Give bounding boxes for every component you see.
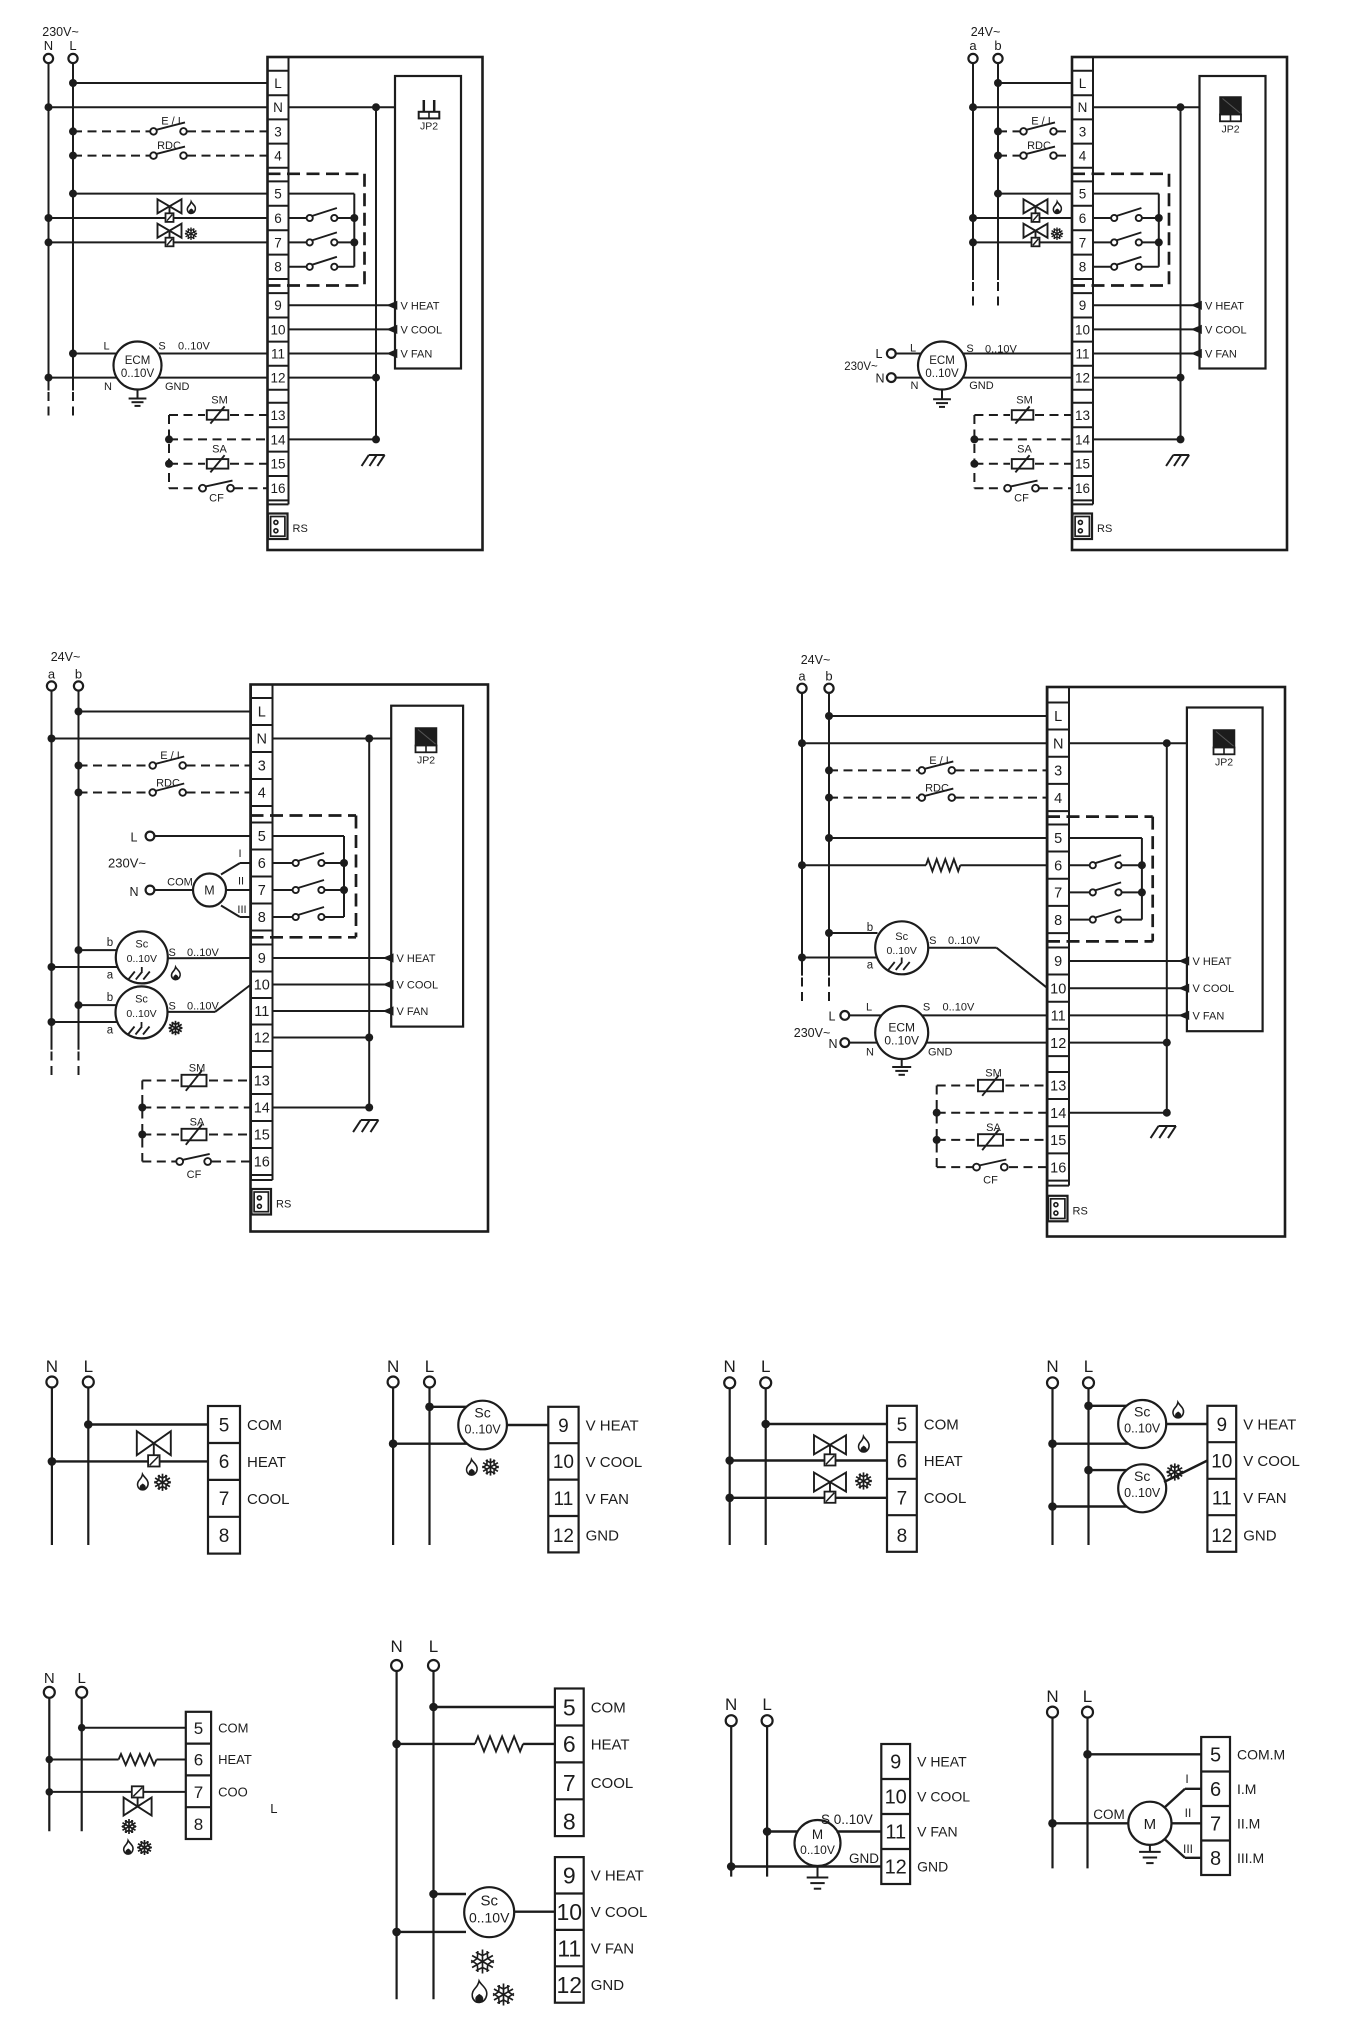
svg-text:3: 3 — [274, 124, 282, 139]
svg-text:S: S — [966, 343, 973, 355]
svg-text:III: III — [1183, 1842, 1193, 1856]
svg-text:S 0..10V: S 0..10V — [821, 1812, 873, 1827]
svg-text:GND: GND — [586, 1528, 620, 1545]
svg-text:5: 5 — [563, 1694, 576, 1720]
svg-text:SA: SA — [1017, 443, 1032, 455]
svg-text:9: 9 — [563, 1863, 576, 1889]
svg-text:Sc: Sc — [474, 1405, 490, 1421]
svg-text:4: 4 — [274, 149, 282, 164]
svg-text:SM: SM — [985, 1068, 1002, 1080]
svg-text:0..10V: 0..10V — [465, 1423, 502, 1437]
svg-text:9: 9 — [1079, 298, 1087, 313]
svg-text:L: L — [425, 1357, 434, 1376]
svg-text:4: 4 — [1079, 149, 1087, 164]
svg-text:0..10V: 0..10V — [469, 1910, 510, 1926]
svg-text:11: 11 — [1051, 1009, 1066, 1025]
svg-text:10: 10 — [254, 978, 270, 994]
svg-text:N: N — [1046, 1357, 1058, 1376]
svg-text:JP2: JP2 — [1221, 124, 1239, 136]
svg-text:V COOL: V COOL — [1205, 324, 1247, 336]
svg-text:E / I: E / I — [160, 750, 180, 762]
svg-text:5: 5 — [219, 1415, 230, 1436]
svg-text:RDC: RDC — [157, 140, 181, 152]
svg-text:11: 11 — [271, 346, 285, 361]
svg-text:10: 10 — [1211, 1451, 1232, 1472]
svg-text:HEAT: HEAT — [218, 1752, 252, 1767]
svg-text:M: M — [204, 884, 214, 898]
svg-text:COM: COM — [247, 1417, 282, 1434]
svg-text:GND: GND — [928, 1047, 953, 1059]
svg-text:7: 7 — [219, 1489, 230, 1510]
svg-text:COOL: COOL — [924, 1490, 967, 1507]
svg-text:N: N — [257, 732, 267, 748]
svg-text:S: S — [158, 341, 165, 353]
svg-text:L: L — [270, 1801, 277, 1816]
svg-text:L: L — [829, 1010, 836, 1024]
svg-text:3: 3 — [258, 759, 266, 775]
svg-text:11: 11 — [885, 1822, 906, 1844]
svg-text:SM: SM — [1016, 395, 1033, 407]
svg-text:10: 10 — [1050, 981, 1066, 997]
svg-text:0..10V: 0..10V — [884, 1034, 919, 1048]
svg-text:N: N — [104, 381, 112, 393]
svg-text:ECM: ECM — [929, 355, 955, 367]
svg-text:L: L — [103, 341, 109, 353]
svg-text:13: 13 — [1050, 1079, 1066, 1095]
svg-text:5: 5 — [274, 187, 282, 202]
svg-text:V HEAT: V HEAT — [591, 1868, 644, 1885]
svg-text:24V~: 24V~ — [51, 650, 81, 664]
svg-text:8: 8 — [563, 1809, 576, 1835]
svg-text:13: 13 — [1075, 408, 1090, 423]
svg-text:I: I — [1185, 1772, 1188, 1786]
svg-text:V COOL: V COOL — [1193, 983, 1235, 995]
svg-text:RS: RS — [293, 523, 308, 535]
svg-text:M: M — [1144, 1816, 1157, 1833]
svg-text:N: N — [1053, 736, 1063, 752]
svg-text:GND: GND — [969, 380, 994, 392]
svg-text:M: M — [812, 1827, 823, 1842]
svg-text:11: 11 — [254, 1004, 269, 1020]
svg-text:III.M: III.M — [1237, 1850, 1264, 1866]
svg-text:14: 14 — [270, 432, 286, 447]
svg-text:11: 11 — [1075, 346, 1089, 361]
svg-text:5: 5 — [1079, 187, 1087, 202]
svg-text:b: b — [825, 669, 832, 684]
svg-text:12: 12 — [557, 1972, 583, 1998]
svg-text:ECM: ECM — [888, 1021, 915, 1035]
svg-text:N: N — [390, 1637, 402, 1656]
svg-text:V COOL: V COOL — [401, 324, 443, 336]
svg-text:4: 4 — [1054, 791, 1062, 807]
svg-text:CF: CF — [209, 493, 224, 505]
svg-text:II: II — [1185, 1806, 1192, 1820]
svg-text:II.M: II.M — [1237, 1815, 1260, 1831]
svg-text:12: 12 — [885, 1857, 907, 1879]
svg-text:S: S — [929, 935, 936, 947]
svg-text:JP2: JP2 — [1215, 757, 1233, 769]
svg-text:COOL: COOL — [247, 1491, 290, 1508]
svg-text:24V~: 24V~ — [971, 25, 1001, 39]
svg-text:6: 6 — [1054, 858, 1062, 874]
svg-text:7: 7 — [897, 1489, 908, 1510]
svg-text:12: 12 — [1211, 1526, 1232, 1547]
svg-text:COM: COM — [924, 1416, 959, 1433]
svg-text:a: a — [969, 38, 977, 53]
svg-text:0..10V: 0..10V — [126, 1008, 156, 1020]
svg-text:GND: GND — [1243, 1528, 1277, 1545]
svg-text:I: I — [238, 848, 241, 860]
svg-text:7: 7 — [274, 235, 282, 250]
svg-text:GND: GND — [849, 1851, 879, 1866]
svg-text:14: 14 — [254, 1101, 270, 1117]
svg-text:15: 15 — [1050, 1133, 1066, 1149]
svg-text:0..10V: 0..10V — [178, 341, 210, 353]
svg-text:8: 8 — [274, 260, 282, 275]
svg-text:9: 9 — [274, 298, 282, 313]
svg-text:16: 16 — [1075, 481, 1090, 496]
svg-text:V HEAT: V HEAT — [1193, 956, 1232, 968]
svg-text:III: III — [237, 904, 246, 916]
svg-text:GND: GND — [917, 1859, 948, 1875]
svg-text:L: L — [1079, 76, 1087, 91]
svg-text:0..10V: 0..10V — [187, 1001, 219, 1013]
svg-text:b: b — [75, 667, 82, 682]
svg-text:V FAN: V FAN — [1205, 349, 1237, 361]
svg-text:COM: COM — [591, 1699, 626, 1716]
svg-text:b: b — [994, 38, 1001, 53]
svg-text:5: 5 — [1210, 1745, 1221, 1767]
svg-text:0..10V: 0..10V — [121, 368, 155, 380]
svg-text:Sc: Sc — [895, 931, 908, 943]
svg-text:V FAN: V FAN — [591, 1941, 634, 1958]
svg-text:E / I: E / I — [1031, 116, 1051, 128]
svg-text:10: 10 — [885, 1787, 907, 1809]
svg-text:RDC: RDC — [156, 778, 180, 790]
svg-text:COM: COM — [1093, 1807, 1125, 1822]
svg-text:8: 8 — [258, 910, 266, 926]
svg-text:V FAN: V FAN — [401, 349, 433, 361]
svg-text:Sc: Sc — [1134, 1468, 1150, 1484]
svg-text:L: L — [1054, 709, 1062, 725]
svg-text:11: 11 — [557, 1935, 581, 1961]
svg-text:L: L — [761, 1357, 770, 1376]
svg-text:L: L — [1083, 1687, 1092, 1706]
svg-text:0..10V: 0..10V — [187, 947, 219, 959]
svg-text:7: 7 — [1210, 1814, 1221, 1836]
svg-text:6: 6 — [274, 211, 282, 226]
svg-text:COM: COM — [218, 1720, 248, 1735]
svg-text:230V~: 230V~ — [108, 856, 146, 871]
svg-text:L: L — [866, 1002, 872, 1014]
svg-text:V COOL: V COOL — [1243, 1453, 1300, 1470]
svg-text:7: 7 — [194, 1783, 203, 1802]
svg-text:RDC: RDC — [1027, 140, 1051, 152]
svg-text:SA: SA — [212, 443, 227, 455]
svg-text:SA: SA — [190, 1117, 205, 1129]
svg-text:0..10V: 0..10V — [800, 1843, 835, 1857]
svg-text:GND: GND — [591, 1977, 625, 1994]
svg-text:COM: COM — [167, 877, 193, 889]
svg-text:V HEAT: V HEAT — [401, 300, 440, 312]
svg-text:S: S — [169, 1001, 176, 1013]
svg-text:V COOL: V COOL — [586, 1454, 643, 1471]
svg-text:24V~: 24V~ — [801, 653, 831, 667]
svg-text:V HEAT: V HEAT — [397, 953, 436, 965]
svg-text:8: 8 — [897, 1526, 908, 1547]
svg-text:12: 12 — [1075, 371, 1090, 386]
svg-text:5: 5 — [258, 829, 266, 845]
svg-text:V HEAT: V HEAT — [917, 1754, 967, 1770]
svg-text:6: 6 — [219, 1452, 230, 1473]
svg-text:10: 10 — [557, 1899, 583, 1925]
svg-text:6: 6 — [194, 1751, 203, 1770]
svg-text:Sc: Sc — [1134, 1404, 1150, 1420]
svg-text:N: N — [273, 100, 283, 115]
svg-text:a: a — [867, 960, 874, 972]
svg-text:15: 15 — [254, 1128, 270, 1144]
svg-text:12: 12 — [254, 1031, 270, 1047]
svg-text:N: N — [725, 1695, 737, 1714]
svg-text:11: 11 — [554, 1489, 574, 1510]
svg-text:GND: GND — [165, 381, 190, 393]
svg-text:3: 3 — [1079, 124, 1087, 139]
svg-text:0..10V: 0..10V — [1124, 1486, 1161, 1500]
svg-text:10: 10 — [1075, 322, 1090, 337]
svg-text:V HEAT: V HEAT — [1205, 300, 1244, 312]
svg-text:0..10V: 0..10V — [1124, 1422, 1161, 1436]
svg-text:L: L — [131, 831, 138, 845]
svg-text:11: 11 — [1212, 1489, 1232, 1510]
svg-text:6: 6 — [1079, 211, 1087, 226]
svg-text:7: 7 — [1054, 886, 1062, 902]
svg-text:V COOL: V COOL — [917, 1789, 970, 1805]
svg-text:5: 5 — [194, 1719, 203, 1738]
svg-text:L: L — [910, 343, 916, 355]
svg-text:E / I: E / I — [929, 755, 949, 767]
svg-text:12: 12 — [1050, 1036, 1066, 1052]
svg-text:6: 6 — [258, 856, 266, 872]
svg-text:CF: CF — [187, 1169, 202, 1181]
svg-text:L: L — [429, 1637, 438, 1656]
svg-text:COO: COO — [218, 1785, 248, 1800]
svg-text:N: N — [44, 38, 53, 53]
svg-text:V FAN: V FAN — [586, 1491, 629, 1508]
svg-text:N: N — [724, 1357, 736, 1376]
svg-text:N: N — [911, 380, 919, 392]
svg-text:a: a — [48, 667, 56, 682]
svg-text:230V~: 230V~ — [42, 25, 79, 39]
svg-text:5: 5 — [1054, 831, 1062, 847]
svg-text:12: 12 — [270, 371, 285, 386]
svg-text:a: a — [107, 970, 114, 982]
svg-text:RDC: RDC — [925, 782, 949, 794]
svg-text:6: 6 — [1210, 1779, 1221, 1801]
svg-text:E / I: E / I — [161, 116, 181, 128]
svg-text:b: b — [867, 922, 873, 934]
svg-text:14: 14 — [1050, 1106, 1066, 1122]
svg-text:9: 9 — [258, 951, 266, 967]
svg-text:RS: RS — [276, 1199, 291, 1211]
svg-text:8: 8 — [194, 1815, 203, 1834]
svg-text:16: 16 — [254, 1155, 270, 1171]
svg-text:0..10V: 0..10V — [985, 343, 1017, 355]
svg-text:HEAT: HEAT — [591, 1736, 630, 1753]
svg-text:RS: RS — [1073, 1205, 1088, 1217]
svg-text:0..10V: 0..10V — [925, 368, 959, 380]
svg-text:L: L — [258, 705, 266, 721]
svg-text:230V~: 230V~ — [794, 1026, 831, 1040]
svg-text:HEAT: HEAT — [247, 1454, 286, 1471]
svg-text:16: 16 — [270, 481, 285, 496]
svg-text:JP2: JP2 — [420, 121, 438, 133]
svg-text:8: 8 — [1079, 260, 1087, 275]
svg-text:b: b — [107, 992, 113, 1004]
svg-text:6: 6 — [897, 1451, 908, 1472]
svg-text:Sc: Sc — [135, 938, 148, 950]
svg-text:V HEAT: V HEAT — [1243, 1416, 1296, 1433]
svg-text:S: S — [923, 1002, 930, 1014]
svg-text:N: N — [387, 1357, 399, 1376]
svg-text:V COOL: V COOL — [397, 980, 439, 992]
svg-text:Sc: Sc — [135, 993, 148, 1005]
svg-text:JP2: JP2 — [417, 755, 435, 767]
svg-text:RS: RS — [1097, 523, 1112, 535]
svg-text:0..10V: 0..10V — [943, 1002, 975, 1014]
svg-text:7: 7 — [563, 1770, 576, 1796]
svg-text:0..10V: 0..10V — [127, 953, 157, 965]
svg-text:II: II — [238, 876, 244, 888]
svg-text:SM: SM — [211, 395, 228, 407]
svg-text:b: b — [107, 937, 113, 949]
svg-text:6: 6 — [563, 1731, 576, 1757]
svg-text:S: S — [169, 947, 176, 959]
svg-text:N: N — [866, 1047, 874, 1059]
svg-text:N: N — [129, 885, 138, 899]
svg-text:16: 16 — [1050, 1160, 1066, 1176]
svg-text:0..10V: 0..10V — [948, 935, 980, 947]
svg-text:L: L — [78, 1670, 86, 1687]
svg-text:CF: CF — [1014, 493, 1029, 505]
svg-text:ECM: ECM — [125, 355, 151, 367]
svg-text:7: 7 — [258, 883, 266, 899]
svg-text:a: a — [107, 1025, 114, 1037]
svg-text:COM.M: COM.M — [1237, 1746, 1285, 1762]
svg-text:5: 5 — [897, 1415, 908, 1436]
svg-text:SA: SA — [986, 1122, 1001, 1134]
svg-text:15: 15 — [1075, 457, 1090, 472]
svg-text:V HEAT: V HEAT — [586, 1417, 639, 1434]
svg-text:4: 4 — [258, 786, 266, 802]
svg-text:0..10V: 0..10V — [887, 945, 917, 957]
svg-text:9: 9 — [558, 1416, 569, 1437]
svg-text:COOL: COOL — [591, 1775, 634, 1792]
svg-text:7: 7 — [1079, 235, 1087, 250]
svg-text:13: 13 — [270, 408, 285, 423]
svg-text:L: L — [69, 38, 76, 53]
svg-text:SM: SM — [189, 1063, 206, 1075]
svg-text:L: L — [274, 76, 282, 91]
svg-text:N: N — [46, 1357, 58, 1376]
svg-text:10: 10 — [553, 1452, 574, 1473]
svg-text:V FAN: V FAN — [1193, 1010, 1225, 1022]
svg-text:V COOL: V COOL — [591, 1904, 648, 1921]
svg-text:10: 10 — [270, 322, 285, 337]
svg-text:15: 15 — [270, 457, 285, 472]
svg-text:V FAN: V FAN — [397, 1006, 429, 1018]
svg-text:L: L — [84, 1357, 93, 1376]
svg-text:14: 14 — [1075, 432, 1091, 447]
svg-text:HEAT: HEAT — [924, 1453, 963, 1470]
svg-text:9: 9 — [1217, 1415, 1228, 1436]
svg-text:L: L — [1084, 1357, 1093, 1376]
svg-text:230V~: 230V~ — [844, 361, 878, 373]
svg-text:a: a — [798, 669, 806, 684]
svg-text:N: N — [828, 1037, 837, 1051]
svg-text:Sc: Sc — [480, 1893, 498, 1910]
svg-text:L: L — [762, 1695, 771, 1714]
svg-text:13: 13 — [254, 1074, 270, 1090]
svg-text:CF: CF — [983, 1175, 998, 1187]
svg-text:8: 8 — [219, 1526, 230, 1547]
svg-text:3: 3 — [1054, 764, 1062, 780]
svg-text:V FAN: V FAN — [917, 1824, 957, 1840]
svg-text:N: N — [1078, 100, 1088, 115]
svg-text:8: 8 — [1054, 913, 1062, 929]
svg-text:N: N — [44, 1670, 55, 1687]
svg-text:L: L — [876, 347, 883, 361]
svg-text:8: 8 — [1210, 1848, 1221, 1870]
svg-text:N: N — [1046, 1687, 1058, 1706]
svg-text:9: 9 — [890, 1752, 901, 1774]
svg-text:V FAN: V FAN — [1243, 1490, 1286, 1507]
svg-text:12: 12 — [553, 1526, 574, 1547]
svg-text:I.M: I.M — [1237, 1781, 1256, 1797]
svg-text:N: N — [875, 372, 884, 386]
svg-text:9: 9 — [1054, 954, 1062, 970]
